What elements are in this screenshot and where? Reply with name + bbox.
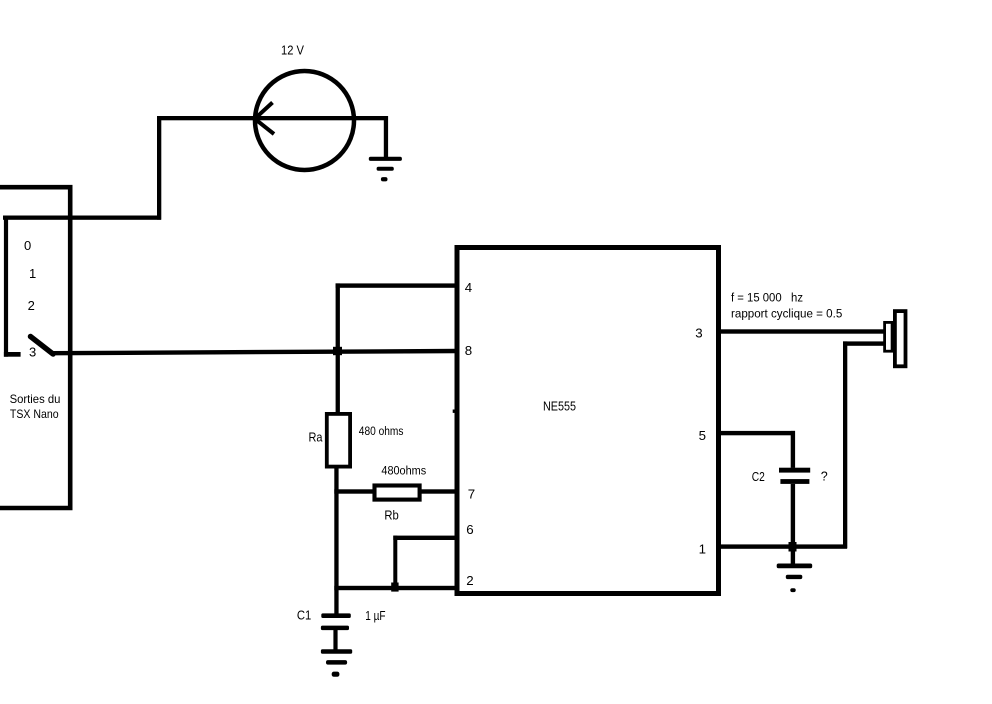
wire source left vertical (157, 116, 161, 220)
wire pin3 horizontal (716, 329, 884, 333)
svg-text:3: 3 (695, 325, 702, 340)
capacitor C1 (321, 613, 351, 630)
svg-text:8: 8 (465, 343, 472, 358)
svg-text:1: 1 (699, 541, 706, 556)
wire pin6 vertical (393, 536, 397, 588)
svg-text:1: 1 (29, 266, 36, 281)
wire speaker return vertical (843, 341, 847, 548)
connector box TSX Nano (0, 187, 70, 508)
node junction pin2 pin6 (391, 583, 398, 592)
wire bus hook (4, 352, 21, 357)
ground G2 (321, 649, 352, 677)
svg-text:TSX Nano: TSX Nano (10, 407, 59, 421)
wire C2 junction to ground (791, 549, 795, 564)
svg-text:Sorties du: Sorties du (10, 392, 61, 406)
svg-text:rapport cyclique = 0.5: rapport cyclique = 0.5 (731, 307, 842, 321)
wire source right vertical (384, 116, 388, 158)
wire C1 to ground (333, 629, 337, 650)
svg-text:NE555: NE555 (543, 399, 576, 413)
svg-text:?: ? (821, 469, 828, 483)
svg-text:12 V: 12 V (281, 44, 305, 58)
wire pin5 horizontal (716, 431, 795, 435)
svg-text:480 ohms: 480 ohms (359, 424, 404, 438)
svg-text:3: 3 (29, 344, 36, 359)
wire pin2 horizontal (334, 586, 457, 590)
svg-text:5: 5 (699, 428, 706, 443)
label Sorties du TSX Nano (10, 392, 61, 421)
svg-text:f = 15 000 hz: f = 15 000 hz (731, 290, 803, 304)
svg-text:480ohms: 480ohms (381, 464, 426, 478)
wire pin8 horizontal (52, 351, 457, 353)
wire pin4 horizontal (336, 283, 457, 287)
capacitor C2 (779, 468, 810, 484)
wire pin1 horizontal (716, 544, 847, 548)
wire speaker return horizontal (843, 341, 884, 345)
speaker LS1 (885, 311, 906, 366)
resistor Ra (327, 414, 350, 467)
svg-text:1 µF: 1 µF (365, 609, 386, 623)
svg-text:4: 4 (465, 280, 472, 295)
svg-text:6: 6 (466, 522, 473, 537)
ground G1 (369, 157, 402, 182)
stray mark on U1 left edge (453, 410, 457, 413)
wire pin6 horizontal (393, 536, 457, 540)
wire pin7 horizontal (334, 489, 457, 493)
resistor Rb (375, 486, 420, 500)
wire C2 bottom lead (791, 484, 795, 547)
svg-text:2: 2 (466, 573, 473, 588)
wire left bus vertical (4, 216, 8, 357)
voltage source V1 (255, 71, 354, 170)
ground G3 (777, 564, 813, 593)
wire pin4 vertical (336, 283, 340, 351)
node junction pin8 (333, 347, 342, 355)
wire Ra top lead (336, 351, 340, 415)
svg-text:C2: C2 (752, 470, 765, 484)
wire top-left horizontal (3, 216, 161, 220)
svg-text:7: 7 (468, 486, 475, 501)
svg-text:0: 0 (24, 238, 31, 253)
switch SW to output 3 (31, 337, 54, 355)
svg-text:Ra: Ra (309, 431, 323, 445)
IC U1 NE555 (457, 248, 719, 594)
node junction C2 pin1 (789, 542, 797, 552)
wire source horizontal (157, 116, 386, 120)
wire pin5 vertical (791, 431, 795, 468)
svg-text:C1: C1 (297, 608, 311, 622)
svg-text:2: 2 (28, 298, 35, 313)
wire Ra bottom vertical to C1 (334, 466, 338, 614)
svg-text:Rb: Rb (384, 509, 398, 523)
